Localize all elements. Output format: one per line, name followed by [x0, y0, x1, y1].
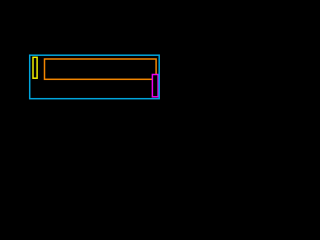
- magenta rectangle: [152, 75, 158, 97]
- orange rectangle: [45, 59, 157, 79]
- yellow rectangle: [33, 57, 37, 78]
- cyan rectangle: [30, 55, 160, 98]
